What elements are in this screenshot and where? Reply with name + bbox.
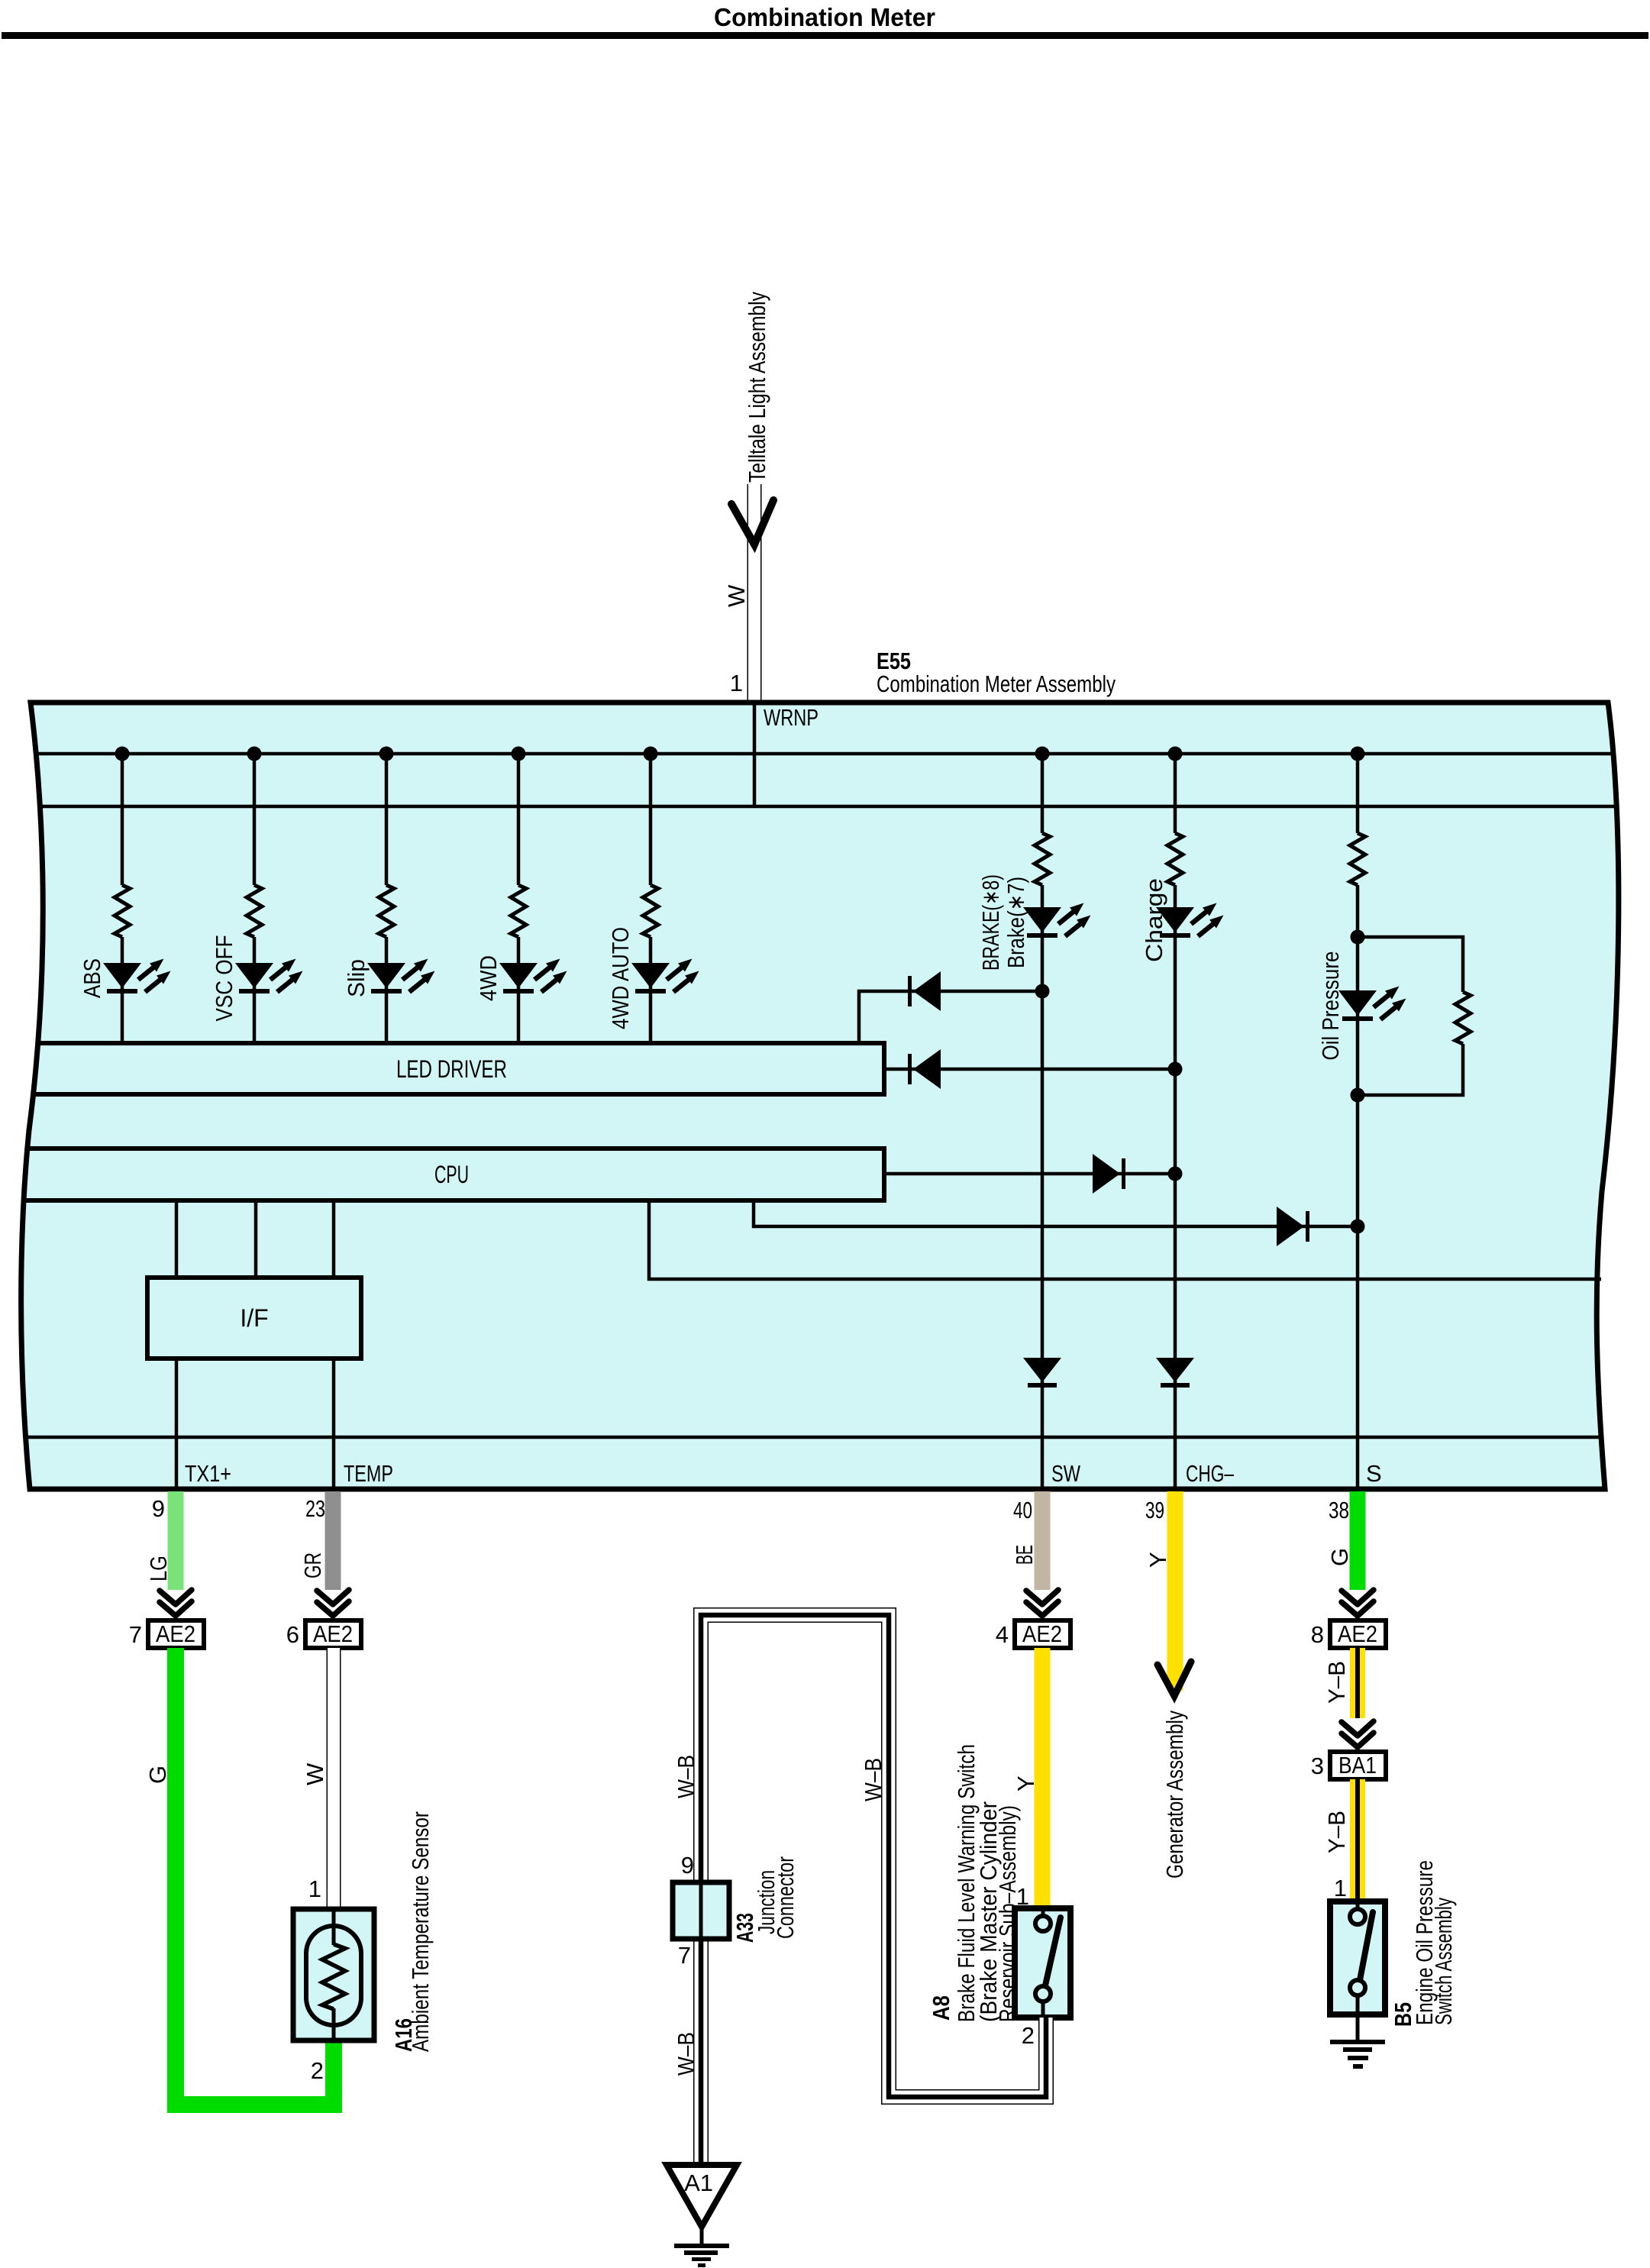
wire ABS branch <box>121 754 124 1042</box>
svg-text:Y: Y <box>1012 1775 1039 1791</box>
svg-text:8: 8 <box>1311 1621 1324 1648</box>
svg-text:AE2: AE2 <box>156 1620 195 1647</box>
wire diode row 4 from CPU <box>754 1203 1358 1226</box>
svg-text:Telltale Light Assembly: Telltale Light Assembly <box>744 292 770 483</box>
wire CPU to I/F stub 3 <box>332 1203 336 1278</box>
wire W from AE2 pin 6 to A16 pin 1 <box>327 1648 341 1909</box>
junction connector A33 <box>673 1882 729 1939</box>
svg-text:Oil Pressure: Oil Pressure <box>1317 951 1344 1061</box>
svg-text:Reservoir Sub–Assembly): Reservoir Sub–Assembly) <box>994 1805 1021 2022</box>
resistor 4WD AUTO <box>643 885 658 937</box>
wire diode row 3 from CPU <box>886 1172 1175 1176</box>
I/F block <box>147 1278 361 1359</box>
title rule <box>2 32 1648 39</box>
diode on SW column <box>1023 1358 1061 1388</box>
node WRNP <box>753 703 757 806</box>
node on bus 1 <box>1168 747 1183 761</box>
svg-text:Slip: Slip <box>343 959 370 997</box>
node on bus 1 <box>512 747 526 761</box>
svg-text:W–B: W–B <box>673 2032 699 2076</box>
svg-text:BE: BE <box>1011 1545 1038 1565</box>
LED 4WD <box>499 959 567 994</box>
LED DRIVER block right edge <box>882 1041 886 1097</box>
chevrons white patch <box>1338 1718 1377 1750</box>
svg-text:4WD AUTO: 4WD AUTO <box>607 927 634 1029</box>
wire Y-B BA1 to B5 <box>1350 1779 1365 1901</box>
diode on CHG column <box>1156 1358 1194 1388</box>
wire diode row 1 <box>859 991 1042 1043</box>
resistor 4WD <box>511 885 526 937</box>
chevrons pin 40 <box>1026 1590 1058 1616</box>
svg-text:4: 4 <box>996 1621 1009 1648</box>
wire TX1+ column <box>175 1359 179 1489</box>
svg-text:VSC OFF: VSC OFF <box>211 935 237 1022</box>
svg-text:WRNP: WRNP <box>764 704 819 731</box>
svg-text:BA1: BA1 <box>1338 1752 1377 1779</box>
connector BA1 pin 3 <box>1311 1752 1386 1779</box>
LED Charge <box>1156 903 1224 939</box>
resistor Slip <box>379 885 394 937</box>
resistor Oil Pressure column <box>1350 833 1365 885</box>
svg-text:40: 40 <box>1013 1497 1032 1523</box>
svg-text:9: 9 <box>152 1495 165 1522</box>
svg-text:AE2: AE2 <box>1022 1620 1062 1647</box>
svg-text:TEMP: TEMP <box>344 1460 393 1487</box>
wire CPU to I/F stub 1 <box>175 1203 179 1278</box>
svg-text:Ambient Temperature Sensor: Ambient Temperature Sensor <box>407 1811 434 2052</box>
LED Oil Pressure <box>1338 987 1406 1022</box>
svg-text:W: W <box>723 584 750 607</box>
svg-text:Generator Assembly: Generator Assembly <box>1161 1711 1188 1879</box>
wire G loop from AE2 pin 7 to A16 pin 2 <box>176 1648 334 2105</box>
node row 3 / Charge column <box>1168 1167 1183 1181</box>
LED Slip <box>367 959 435 994</box>
svg-text:Brake(∗7): Brake(∗7) <box>1003 877 1029 968</box>
LED DRIVER top edge <box>0 1041 884 1045</box>
wire BE pin 40 <box>1035 1491 1051 1590</box>
node on bus 1 <box>644 747 658 761</box>
sensor A16 box <box>293 1909 374 2040</box>
LED VSC OFF <box>235 959 303 994</box>
wire VSC OFF branch <box>253 754 257 1042</box>
CPU bottom edge <box>0 1198 884 1203</box>
svg-text:W–B: W–B <box>860 1758 886 1801</box>
wire parallel resistor loop <box>1358 937 1463 1095</box>
wire Y-B AE2 to BA1 <box>1350 1648 1365 1752</box>
svg-text:GR: GR <box>299 1552 326 1578</box>
wire 4WD branch <box>517 754 521 1042</box>
svg-text:LG: LG <box>145 1556 172 1581</box>
svg-text:Switch Assembly: Switch Assembly <box>1430 1898 1457 2025</box>
chevrons pin 23 <box>317 1590 349 1616</box>
ground of B5 <box>1330 2014 1385 2069</box>
wire Y from AE2 pin 4 to A8 <box>1035 1648 1051 1908</box>
diode row 2 (to Charge column) <box>908 1049 941 1089</box>
node bottom of parallel resistor <box>1351 1088 1365 1103</box>
node on bus 1 <box>115 747 130 761</box>
wire W-B loop A33 to A8 <box>701 1615 1046 2166</box>
chevrons pin 9 <box>160 1590 192 1616</box>
svg-text:A8: A8 <box>928 1995 954 2021</box>
svg-text:G: G <box>1326 1548 1353 1566</box>
svg-text:TX1+: TX1+ <box>185 1460 231 1487</box>
chevrons BA1 <box>1342 1721 1374 1747</box>
svg-text:CHG–: CHG– <box>1186 1460 1235 1487</box>
node row 1 / BRAKE column <box>1035 984 1050 999</box>
resistor ABS <box>115 885 130 937</box>
wire 4WD AUTO branch <box>649 754 653 1042</box>
svg-text:W: W <box>302 1762 328 1785</box>
node on bus 1 <box>1035 747 1050 761</box>
inner bottom rail <box>0 1436 1650 1439</box>
CPU top edge <box>0 1146 884 1151</box>
svg-text:9: 9 <box>681 1852 694 1879</box>
wire BRAKE branch (SW column) <box>1041 754 1045 1489</box>
resistor parallel to Oil Pressure LED <box>1455 992 1471 1044</box>
svg-text:7: 7 <box>129 1621 142 1648</box>
svg-text:ABS: ABS <box>79 958 105 998</box>
svg-text:Y–B: Y–B <box>1323 1661 1350 1704</box>
diode row 3 (CPU to Charge column) <box>1093 1154 1125 1194</box>
svg-text:Y: Y <box>1145 1552 1171 1568</box>
wire LG pin 9 <box>168 1491 184 1590</box>
svg-text:Charge: Charge <box>1141 878 1167 962</box>
svg-text:S: S <box>1366 1460 1382 1487</box>
svg-text:CPU: CPU <box>434 1161 469 1188</box>
arrow from Telltale Light Assembly <box>731 500 773 544</box>
svg-text:I/F: I/F <box>240 1304 268 1332</box>
LED 4WD AUTO <box>631 959 699 994</box>
wire Slip branch <box>385 754 389 1042</box>
svg-text:1: 1 <box>1334 1875 1347 1901</box>
switch B5 <box>1330 1901 1385 2014</box>
svg-text:4WD: 4WD <box>475 955 502 1001</box>
wire TEMP column <box>332 1359 336 1489</box>
connector AE2 pin 4 <box>996 1620 1070 1648</box>
chevrons pin 38 <box>1342 1590 1374 1616</box>
resistor BRAKE <box>1035 833 1050 885</box>
svg-text:G: G <box>144 1766 171 1784</box>
wire GR pin 23 <box>325 1491 341 1590</box>
wire Y pin 39 <box>1167 1491 1183 1691</box>
bus wire 1 <box>0 752 1650 756</box>
svg-text:2: 2 <box>311 2057 324 2084</box>
connector AE2 pin 6 <box>286 1620 361 1648</box>
diode row 1 (to BRAKE column) <box>908 971 941 1011</box>
svg-text:BRAKE(∗8): BRAKE(∗8) <box>977 874 1004 971</box>
svg-text:7: 7 <box>678 1942 691 1969</box>
connector AE2 pin 7 <box>129 1620 204 1648</box>
diode row 4 (CPU to S column) <box>1277 1207 1309 1246</box>
wire CPU to I/F stub 2 <box>254 1203 258 1278</box>
svg-text:Connector: Connector <box>772 1856 799 1939</box>
svg-text:AE2: AE2 <box>1338 1620 1377 1647</box>
E55 Combination Meter Assembly box <box>21 703 1619 1489</box>
svg-text:3: 3 <box>1311 1753 1324 1779</box>
switch A8 <box>1015 1908 1070 2018</box>
LED ABS <box>103 959 171 994</box>
svg-text:6: 6 <box>286 1621 299 1648</box>
ground A1 <box>667 2165 737 2267</box>
svg-text:Combination Meter: Combination Meter <box>714 3 935 31</box>
connector AE2 pin 8 <box>1311 1620 1386 1648</box>
LED BRAKE <box>1023 903 1091 939</box>
node top of parallel resistor <box>1351 930 1365 945</box>
CPU block right edge <box>882 1146 886 1203</box>
svg-text:A1: A1 <box>684 2169 713 2196</box>
svg-text:38: 38 <box>1329 1497 1349 1523</box>
svg-text:Combination Meter Assembly: Combination Meter Assembly <box>877 670 1116 697</box>
node row 2 / Charge column <box>1168 1062 1183 1077</box>
wire W from Telltale Light Assembly <box>748 484 762 703</box>
svg-text:23: 23 <box>305 1495 325 1522</box>
node on bus 1 <box>247 747 262 761</box>
svg-text:1: 1 <box>308 1875 321 1902</box>
node on bus 1 <box>379 747 394 761</box>
wire diode row 2 <box>886 1068 1175 1071</box>
arrow to Generator Assembly <box>1158 1662 1191 1696</box>
LED DRIVER bottom edge <box>0 1092 884 1097</box>
resistor Charge <box>1167 833 1183 885</box>
svg-text:AE2: AE2 <box>313 1620 353 1647</box>
wire G pin 38 <box>1350 1491 1366 1590</box>
bus wire 2 <box>0 805 1650 809</box>
wire CPU long bus <box>649 1203 1601 1279</box>
svg-text:SW: SW <box>1051 1460 1081 1487</box>
svg-text:1: 1 <box>730 670 743 696</box>
node on bus 1 <box>1351 747 1365 761</box>
svg-text:W–B: W–B <box>673 1755 699 1798</box>
svg-text:LED DRIVER: LED DRIVER <box>396 1055 507 1083</box>
svg-text:2: 2 <box>1022 2022 1035 2049</box>
svg-text:39: 39 <box>1145 1497 1164 1523</box>
node row 4 / S column <box>1351 1220 1365 1234</box>
wire Oil Pressure branch (S column) <box>1356 754 1360 1489</box>
wire Charge branch (CHG column) <box>1174 754 1177 1489</box>
resistor inside A16 <box>322 1944 345 2009</box>
svg-text:Y–B: Y–B <box>1323 1811 1350 1853</box>
title: Combination Meter <box>714 3 935 31</box>
resistor VSC OFF <box>247 885 262 937</box>
